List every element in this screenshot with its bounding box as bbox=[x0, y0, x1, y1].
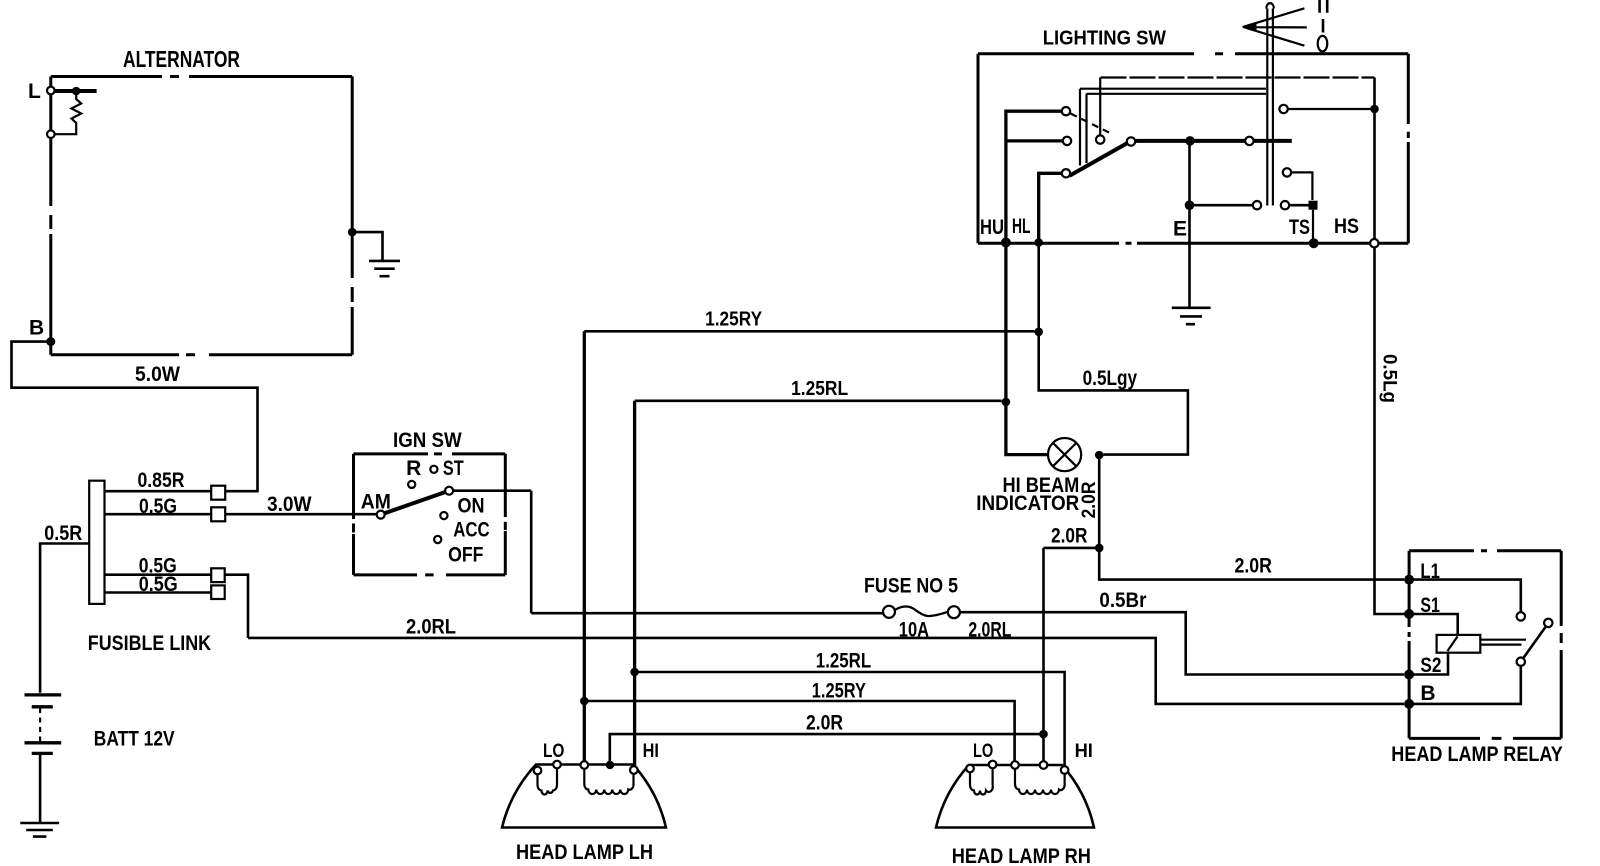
contact HL bbox=[1062, 169, 1070, 177]
svg-text:BATT 12V: BATT 12V bbox=[94, 728, 175, 751]
wire 2.0RL bus to relay B bbox=[248, 638, 1404, 704]
svg-text:TS: TS bbox=[1289, 216, 1310, 239]
wire down to fuse line bbox=[530, 491, 533, 614]
contact relay arm bottom bbox=[1517, 658, 1525, 666]
node 1.25RY branch bbox=[580, 697, 589, 706]
wire L stub bbox=[55, 89, 97, 93]
filament HI head lamp RH bbox=[1015, 768, 1065, 794]
wire 2.0R bus between head lamps bbox=[610, 734, 1044, 761]
fuse NO 5 10A bbox=[864, 574, 960, 641]
wire 1.25RL upper bbox=[635, 399, 1002, 402]
wire 0.5Br fuse to relay S2 bbox=[960, 612, 1404, 674]
fusible link bar bbox=[89, 481, 104, 604]
svg-text:0.85R: 0.85R bbox=[138, 469, 185, 492]
dimmer lever arm bbox=[1070, 143, 1128, 176]
svg-text:AM: AM bbox=[361, 490, 391, 513]
svg-text:E: E bbox=[1173, 218, 1187, 241]
terminal L1 bbox=[1404, 560, 1440, 585]
wire 1.25RL vertical to head lamp LH bbox=[633, 401, 636, 767]
wire 2.0R to relay L1 bbox=[1099, 548, 1404, 580]
contact row2 left bbox=[1253, 201, 1261, 209]
terminal B of alternator bbox=[29, 317, 55, 347]
svg-text:OFF: OFF bbox=[448, 543, 484, 566]
wire 1.25RY lower to head lamp RH bbox=[584, 701, 1014, 762]
svg-text:2.0R: 2.0R bbox=[1079, 481, 1100, 518]
svg-text:1.25RY: 1.25RY bbox=[705, 308, 763, 330]
node ground tap bbox=[348, 228, 357, 237]
symbol position O bbox=[1318, 36, 1328, 52]
wire thick bar row1 bbox=[1136, 139, 1292, 143]
wire relay arm to B bbox=[1409, 666, 1521, 704]
filament HI head lamp LH bbox=[584, 768, 633, 794]
connector 0.85R bbox=[211, 486, 225, 500]
rail B double slider bbox=[1080, 89, 1266, 166]
svg-text:1.25RL: 1.25RL bbox=[791, 378, 848, 400]
terminal AM bbox=[361, 490, 391, 518]
svg-text:ACC: ACC bbox=[453, 518, 489, 541]
node HS riser junction bbox=[1370, 105, 1379, 114]
wire S1 to coil bbox=[1409, 614, 1458, 634]
wire S2 to coil bbox=[1409, 654, 1448, 675]
contact HU lower bbox=[1063, 137, 1071, 145]
wire 0.5Lg HS to relay S1 bbox=[1375, 248, 1405, 615]
wire IGN SW output to fuse bbox=[453, 489, 531, 492]
contact HU upper bbox=[1062, 107, 1070, 115]
svg-text:2.0RL: 2.0RL bbox=[406, 616, 456, 639]
svg-text:INDICATOR: INDICATOR bbox=[976, 492, 1079, 515]
dashed lever alternate position bbox=[1071, 114, 1114, 135]
wire 0.5G lower 2 bbox=[105, 591, 212, 594]
svg-text:L: L bbox=[28, 80, 41, 103]
wire 2.0R vertical to head lamp RH bbox=[1042, 548, 1045, 762]
ignition switch box IGN SW bbox=[354, 454, 506, 575]
head lamp RH body bbox=[936, 765, 1094, 828]
lighting switch lever shaft bbox=[1266, 3, 1274, 205]
wire 5.0W from B to fusible link bbox=[12, 342, 258, 492]
terminal S1 bbox=[1404, 594, 1440, 619]
relay armature link bbox=[1480, 640, 1526, 645]
contact row1 right bbox=[1245, 137, 1253, 145]
terminal B relay bbox=[1404, 682, 1435, 709]
symbol position I bbox=[1322, 19, 1325, 33]
terminal HS bbox=[1334, 215, 1379, 247]
contact pilot with wire bbox=[1279, 105, 1374, 113]
wire fuse feed bbox=[531, 612, 883, 615]
wire HL inside switch bbox=[1039, 173, 1062, 242]
node row1 junction bbox=[1185, 136, 1195, 146]
wire 0.5R battery feed bbox=[40, 544, 89, 693]
ground alternator bbox=[369, 261, 400, 276]
lighting switch box bbox=[978, 54, 1408, 244]
wire 2.0R indicator jog bbox=[1098, 455, 1101, 548]
connector 0.5G lower 2 bbox=[211, 585, 225, 599]
symbol position II bbox=[1320, 0, 1328, 13]
terminal F of alternator bbox=[47, 130, 55, 138]
wire HU drop to indicator bbox=[1006, 243, 1048, 455]
svg-text:HEAD LAMP LH: HEAD LAMP LH bbox=[516, 841, 653, 864]
label HI BEAM INDICATOR bbox=[976, 474, 1079, 515]
svg-text:B: B bbox=[29, 317, 44, 340]
terminals head lamp RH bbox=[966, 761, 1068, 774]
terminal E with wire bbox=[1173, 205, 1190, 307]
wire alternator ground tap bbox=[352, 232, 382, 260]
terminal HL bbox=[1012, 215, 1043, 247]
terminal ACC bbox=[434, 518, 490, 543]
svg-text:0.5Br: 0.5Br bbox=[1099, 589, 1146, 612]
svg-text:0.5R: 0.5R bbox=[44, 522, 82, 545]
relay armature arm bbox=[1523, 627, 1546, 659]
wire L1 to relay contact bbox=[1409, 580, 1521, 612]
svg-text:HEAD LAMP RELAY: HEAD LAMP RELAY bbox=[1391, 743, 1563, 766]
ground battery bbox=[20, 823, 59, 837]
svg-text:ST: ST bbox=[443, 457, 464, 480]
svg-text:0.5Lgy: 0.5Lgy bbox=[1083, 367, 1138, 390]
svg-text:2.0R: 2.0R bbox=[806, 712, 843, 735]
svg-text:LIGHTING SW: LIGHTING SW bbox=[1043, 27, 1166, 49]
connector 0.5G lower 1 bbox=[211, 568, 225, 582]
head lamp LH body bbox=[502, 765, 666, 828]
wire 2.0R to bus bbox=[1044, 547, 1100, 550]
node 2.0R split bbox=[1095, 544, 1104, 553]
svg-text:HU: HU bbox=[980, 216, 1004, 239]
node 1.25RL branch bbox=[630, 668, 639, 677]
contact relay upper bbox=[1517, 612, 1525, 620]
terminal TS square bbox=[1309, 201, 1318, 210]
svg-text:2.0R: 2.0R bbox=[1051, 525, 1087, 548]
wire 1.25RY vertical to head lamp LH bbox=[583, 331, 586, 761]
node 1.25RY joins HL bbox=[1034, 328, 1043, 337]
node 1.25RL joins HU bbox=[1002, 398, 1011, 407]
head lamp relay box bbox=[1409, 551, 1561, 739]
svg-text:R: R bbox=[406, 457, 421, 480]
terminals head lamp LH bbox=[534, 761, 638, 775]
svg-text:0.5G: 0.5G bbox=[139, 495, 177, 518]
svg-text:ALTERNATOR: ALTERNATOR bbox=[123, 46, 240, 72]
contact relay arm top bbox=[1544, 619, 1552, 627]
terminal ON bbox=[440, 495, 484, 520]
node indicator output bbox=[1095, 451, 1104, 460]
svg-text:FUSE NO 5: FUSE NO 5 bbox=[864, 574, 958, 597]
ignition switch lever bbox=[384, 492, 445, 513]
terminal S2 bbox=[1404, 654, 1441, 680]
resistor rotor winding bbox=[55, 94, 81, 134]
svg-text:HL: HL bbox=[1012, 215, 1031, 238]
ground lighting switch E bbox=[1172, 308, 1211, 324]
wire 1.25RY upper bbox=[584, 330, 1034, 333]
filament LO head lamp LH bbox=[538, 767, 558, 795]
wire thick bar row2 bbox=[1190, 204, 1310, 207]
svg-text:B: B bbox=[1420, 682, 1435, 705]
contact lever right bbox=[1127, 137, 1135, 145]
terminal HU bbox=[980, 216, 1011, 248]
wire HL drop and 0.5Lgy loop bbox=[1039, 243, 1188, 455]
wire HS riser bbox=[1373, 78, 1376, 239]
node L junction bbox=[72, 87, 81, 96]
filament LO head lamp RH bbox=[970, 767, 993, 795]
connector 0.5G bbox=[211, 507, 225, 521]
svg-text:HI: HI bbox=[643, 741, 659, 762]
svg-text:HS: HS bbox=[1334, 215, 1359, 238]
svg-text:LO: LO bbox=[973, 741, 993, 762]
contact center with drop wire bbox=[1096, 78, 1104, 144]
svg-text:0.5Lg: 0.5Lg bbox=[1379, 354, 1400, 403]
contact TS upper bbox=[1283, 168, 1291, 176]
svg-text:ON: ON bbox=[458, 495, 485, 518]
wire HU inside switch bbox=[1006, 111, 1063, 242]
wire 0.5G lower 1 bbox=[105, 575, 249, 638]
svg-text:FUSIBLE LINK: FUSIBLE LINK bbox=[88, 632, 211, 655]
svg-text:0.5G: 0.5G bbox=[139, 573, 178, 596]
terminal TS bbox=[1289, 216, 1319, 248]
terminal L of alternator bbox=[28, 80, 55, 103]
battery BATT 12V bbox=[25, 695, 175, 823]
wire 1.25RL lower to head lamp RH bbox=[635, 672, 1065, 767]
svg-text:1.25RL: 1.25RL bbox=[816, 650, 872, 673]
wire 0.5G to ignition switch bbox=[105, 513, 377, 516]
svg-text:HI: HI bbox=[1075, 741, 1093, 762]
terminal lever contact bbox=[445, 487, 453, 495]
svg-text:5.0W: 5.0W bbox=[135, 363, 180, 386]
terminal R bbox=[406, 457, 421, 488]
rail A top bbox=[1101, 76, 1375, 78]
position indicator arrow fan bbox=[1242, 8, 1307, 45]
node row2 junction bbox=[1185, 200, 1195, 210]
node 2.0R junction RH bbox=[1039, 730, 1048, 739]
terminal ST bbox=[430, 457, 464, 480]
wire drop row1 to row2 bbox=[1188, 141, 1191, 205]
svg-text:2.0R: 2.0R bbox=[1235, 554, 1273, 577]
svg-text:1.25RY: 1.25RY bbox=[812, 680, 866, 703]
wire 0.85R fusible link to connector bbox=[105, 490, 212, 493]
relay coil bbox=[1437, 635, 1481, 653]
lamp HI BEAM INDICATOR bbox=[1048, 438, 1081, 471]
svg-text:IGN SW: IGN SW bbox=[393, 429, 462, 452]
alternator box bbox=[51, 77, 352, 355]
svg-text:3.0W: 3.0W bbox=[267, 493, 312, 516]
contact row2 right bbox=[1281, 201, 1289, 209]
svg-text:HEAD LAMP RH: HEAD LAMP RH bbox=[952, 845, 1091, 866]
svg-text:LO: LO bbox=[543, 741, 564, 762]
wire TS link bbox=[1292, 172, 1314, 243]
